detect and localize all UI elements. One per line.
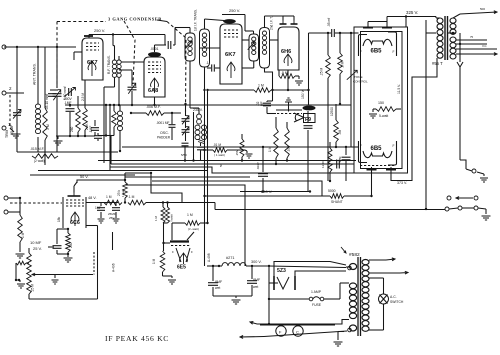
wire section1 to ground bus xyxy=(56,135,58,152)
ground 150 ohm xyxy=(369,109,377,118)
svg-text:.25 M: .25 M xyxy=(320,68,324,76)
wire inverter bottom line xyxy=(240,190,311,192)
ground phono xyxy=(16,250,25,258)
fuse 1 AMP xyxy=(269,283,349,307)
grid cap 6K7 IF xyxy=(223,19,236,23)
wire loop G xyxy=(30,174,135,176)
svg-text:F: F xyxy=(172,250,174,254)
wire 2nd IF secondary top to 6H6 xyxy=(265,16,284,28)
svg-text:F: F xyxy=(360,50,362,54)
power transformer core xyxy=(358,257,361,336)
output transformer core xyxy=(445,16,448,60)
terminal phono 2 xyxy=(4,210,20,214)
svg-text:.1 M: .1 M xyxy=(128,195,135,199)
svg-text:.5 M: .5 M xyxy=(281,71,288,75)
power transformer filament loop xyxy=(348,325,357,332)
tube 6H6 detector xyxy=(278,27,299,70)
output transformer secondary upper xyxy=(450,14,460,34)
svg-text:.006 M.F.: .006 M.F. xyxy=(146,105,161,109)
svg-text:A.C.: A.C. xyxy=(390,295,397,299)
svg-text:.5 M: .5 M xyxy=(287,145,291,152)
wire loop A xyxy=(65,104,351,106)
svg-text:6H6: 6H6 xyxy=(281,49,291,55)
wire 1st IF to 6K7 IF grid xyxy=(200,47,220,49)
capacitor .05MF RF xyxy=(94,104,107,141)
svg-text:500: 500 xyxy=(480,7,485,11)
wire rail 48V extension xyxy=(146,203,446,210)
label 11.5V xyxy=(397,84,401,94)
svg-text:F: F xyxy=(360,144,362,148)
svg-text:373 V.: 373 V. xyxy=(397,181,407,185)
dashed gang link to section 2 xyxy=(124,21,135,84)
label 3 GANG CONDENSER xyxy=(108,17,167,22)
svg-text:6B5: 6B5 xyxy=(371,49,383,55)
output stage box outer xyxy=(354,27,408,173)
svg-text:250 V.: 250 V. xyxy=(94,28,105,33)
svg-text:6A8: 6A8 xyxy=(148,88,158,94)
resistor .25M avc xyxy=(320,32,331,181)
wire diode load xyxy=(288,33,310,105)
wire output to terminal vertical 2 xyxy=(460,67,466,169)
capacitor 1MF cathode xyxy=(89,120,99,136)
svg-text:1 M: 1 M xyxy=(154,215,158,221)
wire B plus rail 290V xyxy=(203,189,330,197)
wire staircase rail xyxy=(151,173,182,203)
capacitor .02MF coupling xyxy=(256,101,276,114)
wire 50V feed xyxy=(77,179,126,183)
svg-text:12500: 12500 xyxy=(330,107,334,116)
label 18k xyxy=(57,216,61,222)
svg-text:wet: wet xyxy=(253,285,258,289)
plate cap 6K7 RF xyxy=(84,36,93,38)
wire output to terminal vertical 1 xyxy=(425,33,427,210)
svg-text:PADDER: PADDER xyxy=(157,136,171,140)
arrow terminal row1 xyxy=(456,197,473,200)
resistor .5M avc xyxy=(338,32,345,105)
output stage box inner xyxy=(361,32,403,169)
wire vertical bus 104 xyxy=(103,87,105,163)
resistor 150 ohm bias xyxy=(376,101,401,118)
wire loop B xyxy=(45,151,118,153)
label 50V xyxy=(80,175,89,179)
svg-text:SWITCH: SWITCH xyxy=(390,300,404,304)
terminal 2 xyxy=(2,86,24,95)
capacitor .05mf coupling xyxy=(309,18,352,37)
wire step A xyxy=(110,167,356,173)
antenna transformer ANT TRANS xyxy=(33,47,41,152)
1st IF transformer primary xyxy=(185,9,198,61)
tube 5Z3 rectifier xyxy=(274,268,295,290)
resistor 12500 ohm xyxy=(330,104,338,148)
dial lamp 2 xyxy=(293,324,303,336)
capacitor .1MF 6K7 cathode xyxy=(64,97,75,136)
1st IF transformer secondary xyxy=(200,29,210,67)
svg-text:48 V.: 48 V. xyxy=(88,196,97,200)
wire feedback left drop xyxy=(15,263,20,281)
resistor .015MF 2watt xyxy=(30,147,58,163)
svg-text:(¼ watt): (¼ watt) xyxy=(188,227,199,231)
resistor 1M antenna xyxy=(43,47,50,152)
wire 325V rail xyxy=(387,15,436,27)
label .5M right xyxy=(338,129,342,135)
svg-text:.25M: .25M xyxy=(235,149,239,156)
power transformer primary left xyxy=(349,283,356,319)
tube 6A8 converter xyxy=(144,57,165,106)
wire osc vertical left xyxy=(192,112,194,162)
svg-text:.01 M: .01 M xyxy=(213,143,221,147)
svg-text:6K7: 6K7 xyxy=(87,60,98,66)
svg-text:SHUNT: SHUNT xyxy=(331,200,343,204)
label 325V xyxy=(406,10,418,15)
svg-text:325 V.: 325 V. xyxy=(406,10,418,15)
wire grid to lower 6B5 xyxy=(351,146,359,148)
ac switch xyxy=(369,278,389,330)
resistor 1M phono xyxy=(18,197,25,250)
resistor 1M eye grid xyxy=(152,243,165,276)
resistor 2.5k xyxy=(81,80,89,136)
svg-text:F: F xyxy=(393,144,395,148)
wire 6C6 plate right xyxy=(86,202,118,204)
arrow AC line 1 xyxy=(250,322,257,325)
wire antenna to RF section xyxy=(4,46,76,48)
terminal row 2 left xyxy=(449,206,462,210)
ground terminal 1 xyxy=(10,128,21,138)
resistor 2M div B xyxy=(162,201,174,223)
wire divider join xyxy=(163,223,168,243)
svg-text:#55 T: #55 T xyxy=(432,61,443,66)
wire loop C xyxy=(98,160,356,162)
resistor .01M 1 watt xyxy=(213,143,245,157)
arrow voice coil xyxy=(470,53,497,56)
choke #271 xyxy=(207,256,269,267)
wire filter ground xyxy=(213,296,252,298)
svg-text:OSC.: OSC. xyxy=(160,131,169,135)
wire rail drop to 2nd IF xyxy=(245,15,254,35)
wire vertical bus 110b xyxy=(109,105,111,171)
wire long vertical screen bus xyxy=(207,90,209,223)
wire rectifier filament xyxy=(269,266,278,283)
resistor .5M 6H6 xyxy=(279,70,299,78)
label 300V xyxy=(251,260,346,268)
wire step D xyxy=(125,185,245,266)
tube 6C6 xyxy=(63,197,86,228)
svg-text:1 M: 1 M xyxy=(187,213,193,217)
svg-text:wet: wet xyxy=(215,286,220,290)
grid cap 6C6 xyxy=(68,182,81,196)
label 230V xyxy=(193,108,203,112)
dashed gang link to oscillator section xyxy=(167,22,186,113)
svg-text:C: C xyxy=(296,330,299,335)
RF transformer primary xyxy=(104,46,117,87)
svg-text:300 V.: 300 V. xyxy=(251,260,262,264)
arrow AC line 2 xyxy=(240,336,264,339)
2nd IF transformer secondary xyxy=(260,16,274,68)
svg-text:5/50: 5/50 xyxy=(181,153,187,157)
svg-text:8MF: 8MF xyxy=(215,280,223,284)
wire secondary junction xyxy=(448,32,457,34)
voice coil leads xyxy=(456,35,497,54)
wire speaker top arrow xyxy=(460,7,497,14)
plate caps 6B5 lower xyxy=(367,167,397,170)
svg-text:1 M: 1 M xyxy=(258,84,264,88)
svg-text:1 M: 1 M xyxy=(106,195,112,199)
antenna terminal xyxy=(2,45,39,49)
tube 6K7 RF amplifier xyxy=(82,38,103,80)
wire volume return vertical xyxy=(86,226,98,300)
wire 6K7 IF plate to 2nd IF xyxy=(242,39,249,41)
wire heater line xyxy=(264,331,347,337)
terminal 1 xyxy=(2,122,11,130)
capacitor .02 plate xyxy=(304,111,313,192)
gang tuning capacitor section 1 xyxy=(53,46,62,135)
wire rail 6K7 IF xyxy=(222,14,245,16)
wire 6A8 plate to 1st IF xyxy=(175,28,190,46)
wire center tap B plus xyxy=(426,20,436,33)
tone control capacitor xyxy=(347,33,368,147)
ground filter xyxy=(232,300,241,304)
svg-text:A-496: A-496 xyxy=(112,263,116,272)
wire loop D xyxy=(111,135,354,169)
wire 1st IF secondary top to grid cap xyxy=(205,19,225,29)
label A-498 xyxy=(207,253,211,262)
ground 6K7 cathode xyxy=(54,135,96,145)
svg-text:260: 260 xyxy=(70,126,74,132)
capacitor .0001 plate xyxy=(150,41,175,51)
wire rail end xyxy=(445,207,449,211)
svg-text:1 M: 1 M xyxy=(21,232,25,238)
plate caps 6B5 upper xyxy=(363,17,392,28)
svg-text:F: F xyxy=(191,250,193,254)
wire lower 6B5 left plate xyxy=(371,170,373,197)
trimmer capacitor .05MF xyxy=(5,47,38,152)
dashed vertical volume xyxy=(93,252,95,275)
svg-text:.015 M.F.: .015 M.F. xyxy=(30,147,44,151)
terminal row 1 left xyxy=(447,196,451,200)
wire cathode loop xyxy=(57,228,69,255)
terminal phono 1 xyxy=(4,196,20,200)
volume control potentiometer .25M xyxy=(27,248,35,299)
ground feedback xyxy=(17,280,25,288)
ground 6H6 load xyxy=(295,76,303,85)
ground transformer bottom xyxy=(334,332,345,347)
svg-text:6K7: 6K7 xyxy=(225,52,236,58)
wire 250V to 6K7 plate xyxy=(89,28,165,36)
wire transformer top right arrow xyxy=(369,258,395,261)
ground wiper tap xyxy=(52,275,59,285)
ground .01M return xyxy=(245,150,253,158)
wire volume bottom loop xyxy=(29,298,98,300)
svg-text:V.C.: V.C. xyxy=(482,44,487,48)
label 150V xyxy=(301,89,305,99)
capacitor 5-50 osc xyxy=(181,143,189,162)
wire fuse vertical xyxy=(268,283,270,325)
wire 6A8 grid from RF xyxy=(121,61,144,63)
output transformer primary xyxy=(436,18,443,58)
resistor 250 ohm cathode xyxy=(66,228,73,256)
svg-text:.1MF: .1MF xyxy=(89,126,93,133)
svg-text:FUSE: FUSE xyxy=(312,303,322,307)
svg-text:.25 M: .25 M xyxy=(31,284,35,292)
trimmer 5-50mmf xyxy=(63,86,75,100)
svg-text:1 M: 1 M xyxy=(152,258,156,264)
resistor .5M F9 xyxy=(285,122,291,162)
wire 2nd IF primary bottom xyxy=(242,61,254,68)
svg-text:75: 75 xyxy=(470,35,474,39)
svg-text:150: 150 xyxy=(378,101,384,105)
dashed lead to terminal 1 xyxy=(9,95,11,126)
resistor 260 ohm xyxy=(70,96,80,136)
label AC SWITCH xyxy=(390,295,404,304)
grid bar 6E5 xyxy=(170,232,194,246)
resistor .25M inverter xyxy=(235,134,244,162)
svg-text:A-498: A-498 xyxy=(207,253,211,262)
svg-text:5000: 5000 xyxy=(328,189,336,193)
wire rail branch to RF coil xyxy=(113,35,115,46)
svg-text:½watt: ½watt xyxy=(170,214,174,222)
terminal row 2 right xyxy=(462,206,478,210)
svg-text:200V: 200V xyxy=(64,97,73,101)
grid cap 6A8 xyxy=(148,45,161,57)
wire eye plate feed xyxy=(162,242,170,244)
label 48V xyxy=(88,196,97,200)
svg-text:25 V.: 25 V. xyxy=(33,246,42,251)
dashed gang link horizontal xyxy=(57,21,106,23)
wire primary bottom xyxy=(257,320,349,325)
svg-text:1 M: 1 M xyxy=(46,124,50,130)
svg-text:11.5 V.: 11.5 V. xyxy=(397,84,401,94)
resistor 23k 1watt xyxy=(117,173,127,204)
svg-text:.05 mf: .05 mf xyxy=(327,18,331,27)
ground terminal block xyxy=(478,208,491,220)
svg-text:250: 250 xyxy=(69,242,73,248)
oscillator coil primary small xyxy=(197,108,202,124)
ground 6C6 cathode xyxy=(64,256,73,262)
capacitor osc cathode xyxy=(197,143,213,161)
svg-text:.02mf: .02mf xyxy=(256,162,260,170)
svg-text:8MF: 8MF xyxy=(253,278,261,282)
wire loop E xyxy=(38,170,207,172)
power transformer HV top loop xyxy=(346,264,357,270)
svg-text:150 V.: 150 V. xyxy=(301,89,305,99)
tube 6B5 upper xyxy=(359,32,397,57)
wire 2nd IF to 6H6 xyxy=(270,16,295,40)
svg-text:5Z3: 5Z3 xyxy=(277,268,286,274)
svg-text:( 1 watt): ( 1 watt) xyxy=(214,153,225,157)
resistor RF grid leak xyxy=(105,104,117,137)
svg-text:230 V.: 230 V. xyxy=(193,108,203,112)
svg-text:.5 M: .5 M xyxy=(341,61,345,68)
svg-text:IF PEAK 456 KC: IF PEAK 456 KC xyxy=(105,334,169,343)
coupling capacitor .05-10mmf xyxy=(45,90,58,110)
gang tuning capacitor section 2 xyxy=(119,70,137,106)
wire 1st IF primary bottom to osc xyxy=(190,61,199,108)
resistor .5M div A xyxy=(154,203,165,224)
RF transformer secondary xyxy=(117,105,122,152)
wire 48V feed xyxy=(125,172,152,174)
dial lamp 1 xyxy=(276,324,286,336)
tube 6K7 IF amplifier xyxy=(220,24,242,84)
2nd IF transformer primary xyxy=(248,34,259,61)
resistor feedback small xyxy=(16,261,29,265)
wire rail drop to 6A8 cap xyxy=(164,35,166,46)
ground F9 grid return xyxy=(285,98,292,112)
svg-text:.25M: .25M xyxy=(338,156,342,163)
terminal field A xyxy=(466,169,476,173)
svg-text:2nd I.F. T.: 2nd I.F. T. xyxy=(270,16,274,30)
resistor 1M F9 grid xyxy=(268,117,278,165)
oscillator transformer coils xyxy=(195,125,207,144)
capacitor .02mf inverter xyxy=(256,146,268,192)
resistor 1M quarter watt xyxy=(172,213,209,240)
wire loop F xyxy=(122,146,356,148)
resistor 5000 ohm shunt xyxy=(328,189,373,204)
svg-text:6C6: 6C6 xyxy=(70,220,80,226)
capacitor 8MF wet input xyxy=(208,265,223,296)
label 250V top xyxy=(229,8,240,13)
tube 6B5 lower xyxy=(359,141,397,166)
wire 2nd IF secondary bottom xyxy=(265,68,274,101)
svg-text:(2 watt): (2 watt) xyxy=(34,159,45,163)
dashed gang link vertical to section 1 xyxy=(56,22,58,89)
svg-text:TRIM: TRIM xyxy=(5,130,9,138)
tube F9 first audio xyxy=(276,106,316,123)
label A-496 tap xyxy=(112,232,116,272)
wire rectifier plates xyxy=(274,262,346,277)
svg-text:ANT. TRANS.: ANT. TRANS. xyxy=(33,63,37,85)
ground field xyxy=(477,172,488,182)
svg-text:.0001: .0001 xyxy=(150,47,159,51)
label 373V xyxy=(397,181,407,185)
caption IF PEAK 456 KC xyxy=(105,334,169,343)
capacitor .0001 osc grid xyxy=(156,112,176,140)
wire transformer right arrow 2 xyxy=(369,271,408,274)
svg-text:6B5: 6B5 xyxy=(371,146,383,152)
svg-text:3 GANG CONDENSER: 3 GANG CONDENSER xyxy=(108,17,162,22)
volume wiper dashed xyxy=(32,273,93,276)
svg-text:250 V.: 250 V. xyxy=(229,8,240,13)
wire lower 6B5 right plate xyxy=(391,58,437,181)
wire step C xyxy=(152,181,322,196)
label #55T xyxy=(432,61,443,66)
svg-text:.5M: .5M xyxy=(338,129,342,135)
dashed AVC line left xyxy=(10,202,62,204)
svg-text:10 MF: 10 MF xyxy=(30,240,42,245)
capacitor 8MF wet output xyxy=(247,266,261,296)
oscillator padder trimmer xyxy=(157,127,190,141)
resistor 1M half watt xyxy=(104,195,122,205)
label #582 transformer xyxy=(341,247,360,258)
svg-text:1200: 1200 xyxy=(321,161,325,168)
wire antenna bottom bus xyxy=(38,152,45,165)
wire 6K7 grid to RF transformer xyxy=(74,52,82,60)
svg-text:#271: #271 xyxy=(226,256,234,260)
phasing lead arrow down xyxy=(457,33,463,67)
svg-text:.1: .1 xyxy=(206,61,209,65)
svg-text:50 V.: 50 V. xyxy=(80,175,89,179)
capacitor .5MF inverter xyxy=(338,146,351,181)
svg-text:R.F. TRANS.: R.F. TRANS. xyxy=(107,55,111,74)
resistor 1200 ohm xyxy=(321,142,332,182)
label 50 ohm xyxy=(219,163,223,167)
wire 1st IF secondary bottom long vertical xyxy=(204,67,206,266)
screen bypass .1MF xyxy=(206,61,220,72)
capacitor 10MF 25V xyxy=(30,229,62,254)
output transformer secondary lower xyxy=(450,37,456,59)
resistor .1M xyxy=(128,195,146,205)
resistor 1M coupling xyxy=(203,84,289,93)
RF transformer winding 2 xyxy=(117,56,121,106)
ground eye xyxy=(163,276,177,284)
